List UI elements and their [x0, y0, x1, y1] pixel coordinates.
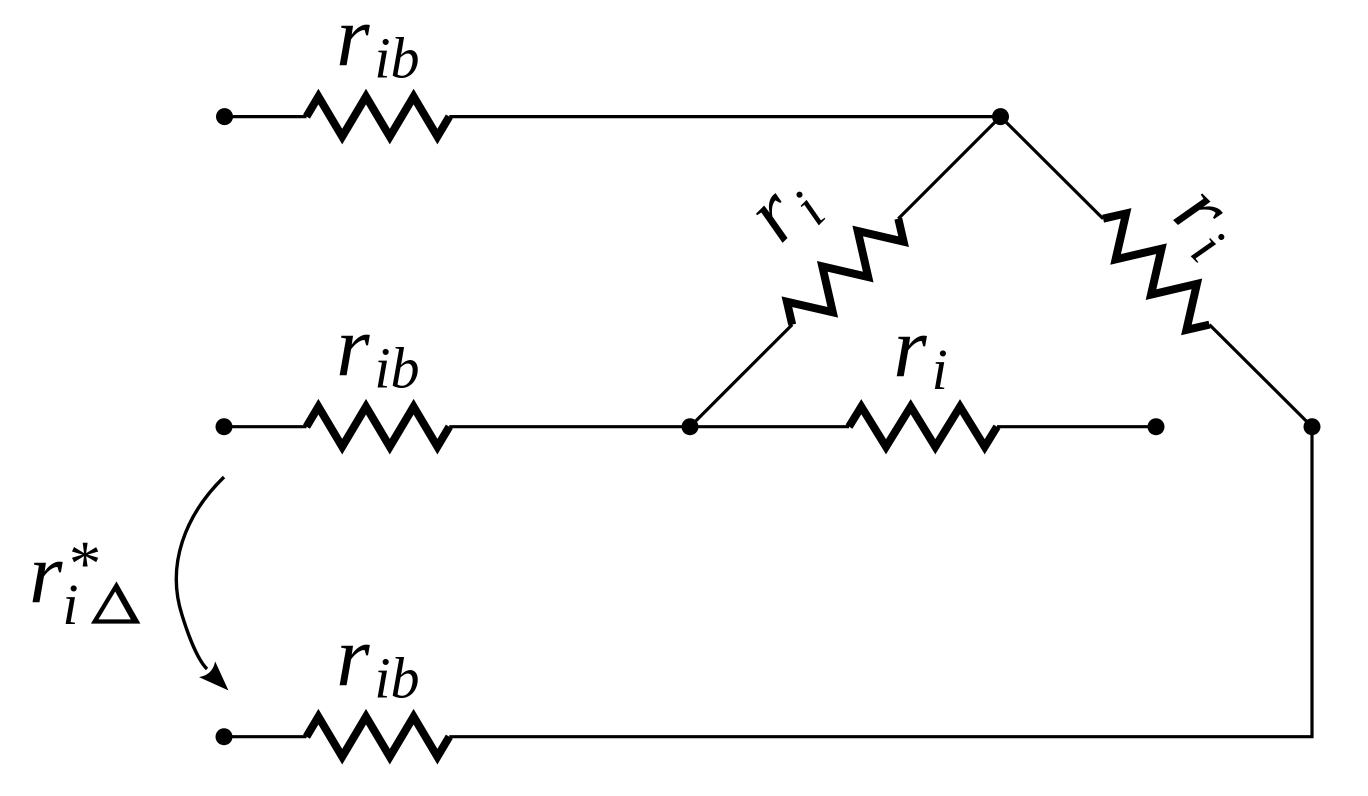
- svg-text:r: r: [336, 0, 370, 84]
- annotation arrow (curved): [176, 477, 227, 689]
- label r*_iDelta: [29, 525, 140, 637]
- svg-text:ib: ib: [374, 26, 419, 91]
- label r_ib (top): [336, 0, 419, 91]
- label r_ib (bottom): [336, 608, 419, 711]
- svg-text:ib: ib: [374, 336, 419, 401]
- wire (middle-left lead): [224, 425, 307, 428]
- label r_ib (middle): [336, 298, 419, 401]
- resistor R_i left-diagonal zigzag: [787, 219, 904, 325]
- svg-text:r: r: [336, 608, 370, 704]
- wire (left-diagonal upper lead): [898, 117, 1000, 219]
- wire (bottom-left lead): [224, 735, 307, 738]
- svg-text:ib: ib: [374, 646, 419, 711]
- wire (right vertical + bottom return): [449, 427, 1312, 737]
- svg-text:r: r: [29, 525, 63, 621]
- wire (right-diagonal lower lead): [1209, 325, 1312, 427]
- wire (top horizontal): [449, 115, 1000, 118]
- label r_i (middle horizontal): [893, 299, 947, 402]
- svg-text:i: i: [62, 572, 78, 637]
- svg-text:r: r: [893, 299, 927, 395]
- node B (top-right junction): [992, 108, 1009, 125]
- resistor R_ib middle zigzag: [307, 407, 450, 447]
- node G (bottom-left terminal): [216, 728, 233, 745]
- resistor R_ib top zigzag: [307, 97, 450, 137]
- label r_i (right diagonal, rotated): [1152, 163, 1263, 274]
- resistor R_i right-diagonal zigzag: [1103, 213, 1209, 330]
- node E (middle-right terminal): [1148, 418, 1165, 435]
- node F (far-right junction): [1304, 418, 1321, 435]
- wire (middle-right lead): [997, 425, 1156, 428]
- wire (top-left lead): [225, 115, 307, 118]
- resistor R_i middle horizontal zigzag: [849, 407, 997, 447]
- resistor R_ib bottom zigzag: [307, 717, 450, 757]
- wire (right-diagonal upper lead): [1001, 117, 1104, 219]
- label r_i (left diagonal, rotated): [726, 152, 837, 263]
- node D (middle junction): [682, 418, 699, 435]
- wire (left-diagonal lower lead): [690, 325, 792, 427]
- wire (middle horizontal to junction): [449, 425, 690, 428]
- node C (middle-left terminal): [216, 418, 233, 435]
- svg-text:i: i: [932, 337, 948, 402]
- svg-text:r: r: [336, 298, 370, 394]
- node A (top-left terminal): [216, 108, 233, 125]
- wire (middle lead to r_i): [690, 425, 849, 428]
